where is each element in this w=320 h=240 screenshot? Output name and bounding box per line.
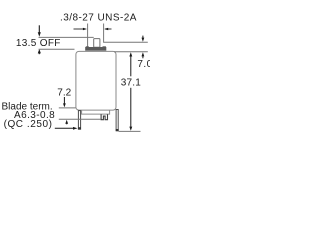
push button [94,39,100,48]
left blade terminal (side view) [78,111,80,130]
13.5 bottom extension line [39,48,75,50]
right blade terminal (side view) [116,110,118,131]
thread dim right arrow [104,28,111,31]
svg-text:(QC .250): (QC .250) [4,119,53,130]
thread extension line right, turns into 7.0 top ref line [104,24,148,43]
thread dim left arrow [74,28,88,31]
7.2 top arrow (down) [63,97,66,107]
7.0 bottom arrow (up) [142,52,145,58]
body-top ref line for 37.1 and 7.0 [114,51,148,53]
svg-text:13.5 OFF: 13.5 OFF [16,38,61,49]
37.1 bottom stem + arrow (down) [129,88,132,131]
37.1 top arrow (up) + stem [129,52,132,76]
7.2 bottom ref line [59,118,101,120]
bushing nut bar [85,47,106,51]
svg-text:.3/8-27 UNS-2A: .3/8-27 UNS-2A [60,12,137,23]
svg-text:7.0: 7.0 [137,59,150,70]
blade-tip ref line (37.1 bottom) [119,130,141,132]
13.5 bottom arrow (up) [38,49,41,54]
svg-text:7.2: 7.2 [57,87,71,98]
7.2 top ref line [59,107,76,109]
7.2 bottom arrow (up) [65,120,68,125]
7.0 top arrow (down) [142,36,145,42]
body outline [76,51,116,110]
bushing nut bumps [86,46,89,47]
13.5 top extension line to button [39,36,94,38]
leader from (QC .250) to left blade tip [55,127,78,130]
front blade terminal with notch [101,114,107,120]
13.5 OFF top arrow (down) [38,25,41,37]
terminal block step [82,110,110,114]
thread extension line left [87,24,89,47]
svg-text:37.1: 37.1 [121,77,142,88]
